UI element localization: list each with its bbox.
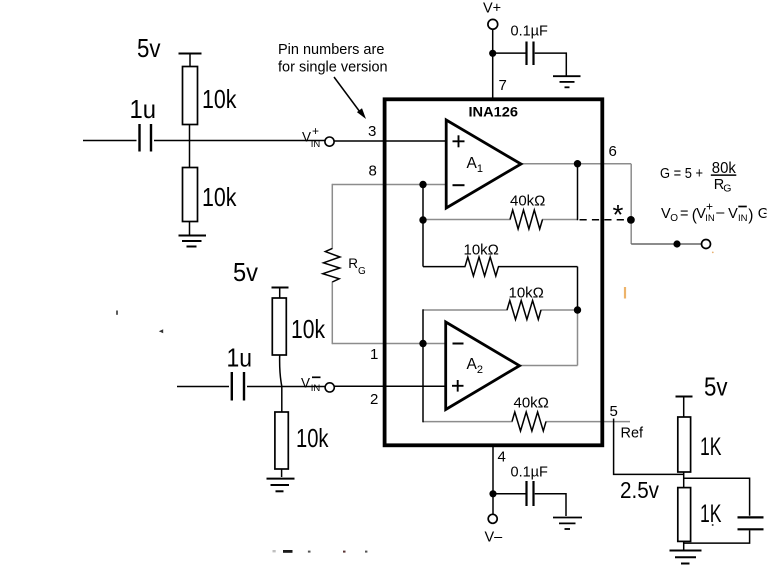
junction dot V- rail [489,490,496,497]
wire: midpoint to filter cap [684,478,750,516]
svg-text:V: V [301,375,310,390]
svg-text:80k: 80k [712,160,736,177]
op-amp A1 [446,120,521,208]
formula G = 5 + 80k/RG [660,160,736,195]
terminal V+ [488,19,498,29]
capacitor 0.1uF (top bypass) [525,42,527,66]
terminal VO output [702,240,711,249]
ground (lower divider) [267,478,295,480]
svg-text:1K: 1K [700,500,722,528]
resistor RG zigzag [323,248,340,282]
svg-text:40kΩ: 40kΩ [514,395,549,412]
artifact: faint orange dot [712,252,714,254]
svg-text:V–: V– [485,530,504,546]
svg-text:2.5v: 2.5v [620,477,659,503]
wire: top bypass cap to ground [535,53,567,75]
junction dot: pin1 / A2 inverting [419,340,426,347]
terminal V-IN [325,383,334,392]
wire: 1K junction column [683,472,685,488]
wire: pin 7 vertical into box top [492,29,494,98]
svg-text:*: * [613,199,624,230]
wire: filter cap bottom return [684,530,750,543]
power terminal bar (lower 5v) [272,287,289,289]
wire: A2 output vertical to 10k [577,310,579,366]
svg-text:1: 1 [370,346,378,363]
svg-text:+: + [312,124,319,138]
wire: slanted lead from lower divider top [280,355,282,386]
annotation arrow [334,77,360,112]
svg-text:for single version: for single version [278,60,388,76]
svg-text:5: 5 [610,403,618,420]
svg-text:Pin numbers are: Pin numbers are [278,42,384,58]
svg-text:R: R [348,256,358,271]
formula VO = (V+IN - V-IN) G [661,200,777,225]
resistor R 10k (lower divider top) [272,298,286,355]
terminal V- [488,514,497,523]
capacitor 1u (lower input) [231,372,233,401]
wire: lower input line left of cap [177,386,229,388]
artifact: orange dash [624,287,626,299]
svg-text:G: G [358,266,366,277]
svg-text:+: + [706,200,713,214]
resistor 1K (lower) [678,488,691,542]
svg-text:): ) [748,207,753,224]
svg-text:3: 3 [368,123,376,140]
wire: pin 4 vertical from box bottom [492,444,494,514]
svg-text:8: 8 [369,162,377,179]
svg-text:0.1µF: 0.1µF [511,24,549,40]
artifact: small arrow mark [159,329,163,333]
svg-text:V+: V+ [483,1,501,17]
wire: pin 6 vertical drop [630,164,632,244]
wire: 10k (first) right lead [498,266,578,268]
artifact: faint erased text [273,550,368,553]
wire: 40k (bottom) left lead [423,421,513,423]
wire: output column at x=577.5 lower [577,267,579,311]
svg-text:10kΩ: 10kΩ [509,285,544,302]
capacitor (bottom right filter) [738,516,764,518]
wire: pin 2 input into A2 + [334,385,449,387]
svg-text:IN: IN [738,213,748,224]
resistor 40kohm (A2 feedback) zigzag [512,412,546,431]
IC box INA126 [385,99,603,445]
ground (bottom right) [670,550,702,552]
wire: pin 8 net (gray, A1 inverting input) [332,184,449,186]
resistor 40kohm (A1 feedback) zigzag [510,210,543,229]
svg-text:5v: 5v [137,33,161,63]
wire: 1K lower to ground [683,541,685,550]
capacitor 1u (upper input) [138,124,140,152]
junction dot: A1 output [574,160,581,167]
op-amp A2 plus symbol [452,385,464,387]
node label V-IN [301,375,321,394]
svg-text:5v: 5v [233,257,258,287]
svg-text:2: 2 [370,391,378,408]
svg-text:IN: IN [311,383,321,394]
junction dot: output node [673,240,680,247]
wire: upper input line left of cap [83,140,137,142]
resistor R 10k (upper divider bottom) [189,140,191,168]
svg-text:4: 4 [498,449,506,466]
svg-text:10k: 10k [296,423,329,453]
wire: feedback column at x=423 (A2 side) [422,309,424,422]
ground (top bypass) [553,75,581,77]
op-amp A2 [446,322,520,410]
wire: RG left column upper segment [331,184,333,249]
op-amp A1 minus symbol [453,184,465,186]
resistor R 10k (lower divider bottom) [281,387,283,413]
svg-text:IN: IN [705,213,715,224]
junction dot: 10k second right [574,306,581,313]
wire: lower input line right of cap [247,386,325,388]
artifact: small tick [116,311,118,315]
junction dot V+ rail [489,50,496,57]
svg-text:10k: 10k [202,84,237,114]
wire: V+ rail to bypass cap [493,52,526,54]
wire: 40k (top) left lead [423,219,511,221]
wire: A2 output [516,365,578,367]
wire: bottom bypass cap to ground [535,494,566,516]
svg-text:V: V [302,129,311,144]
resistor 10kohm (second) zigzag [507,301,541,320]
wire: RG left column lower segment [331,282,333,345]
wire: output column at x=577.5 upper [577,163,579,220]
svg-text:IN: IN [311,139,321,150]
wire: 40k (top) right lead [542,219,578,221]
wire: pin 1 net (gray, A2 inverting input) [332,343,449,345]
wire: 40k (bottom) right lead to pin 5 [546,421,631,423]
op-amp A2 minus symbol [453,343,464,345]
svg-text:1K: 1K [700,433,722,461]
wire: 10k (second) right lead [541,309,579,311]
junction dot: output star node [627,216,635,224]
wire: upper input line right of cap [154,140,325,142]
ground (bottom bypass) [553,517,582,519]
ground (upper divider) [179,235,207,237]
svg-text:10k: 10k [202,182,237,212]
wire: 10k (first) left lead [423,266,466,268]
svg-text:–: – [716,205,725,221]
wire: dashed output sense [580,219,628,221]
svg-text:40kΩ: 40kΩ [510,193,545,210]
svg-text:5v: 5v [704,372,728,402]
wire: A1 output to pin 6 [518,163,631,165]
terminal V+IN [325,137,334,146]
resistor R 10k (upper divider top) [183,67,198,125]
svg-text:7: 7 [499,77,507,94]
wire: Ref vertical and horizontal [614,419,684,475]
power terminal bar (bottom right 5v) [676,396,693,398]
svg-text:1u: 1u [227,343,253,373]
svg-text:O: O [670,213,678,224]
svg-text:INA126: INA126 [469,104,519,120]
capacitor 0.1uF (bottom bypass) [525,481,527,506]
op-amp A1 plus symbol [453,140,465,142]
node label V+IN [302,124,320,150]
wire: feedback column at x=423 (A1 side) [422,184,424,267]
svg-text:G = 5 +: G = 5 + [660,166,703,182]
resistor 10kohm (first) zigzag [465,257,499,276]
wire: 10k (second) left lead [423,309,508,311]
artifact: tiny dot (right of filter cap) [712,524,714,526]
svg-text:6: 6 [609,143,617,160]
svg-text:10k: 10k [291,314,326,344]
svg-text:0.1µF: 0.1µF [511,465,549,481]
junction dot: pin8/40k branch [419,181,426,188]
wire: output down and right [631,243,701,245]
svg-text:=: = [680,206,688,222]
svg-text:1u: 1u [130,94,157,124]
power terminal bar (upper 5v) [179,53,202,55]
junction dot: 40k top left [419,216,426,223]
resistor 1K (upper) [678,417,691,472]
svg-text:V: V [728,206,738,222]
wire: V- rail to bypass cap [493,493,526,495]
svg-text:10kΩ: 10kΩ [464,242,499,259]
svg-text:G: G [723,183,731,195]
svg-text:Ref: Ref [621,426,645,442]
wire: pin 3 input into A1 + [334,140,449,142]
